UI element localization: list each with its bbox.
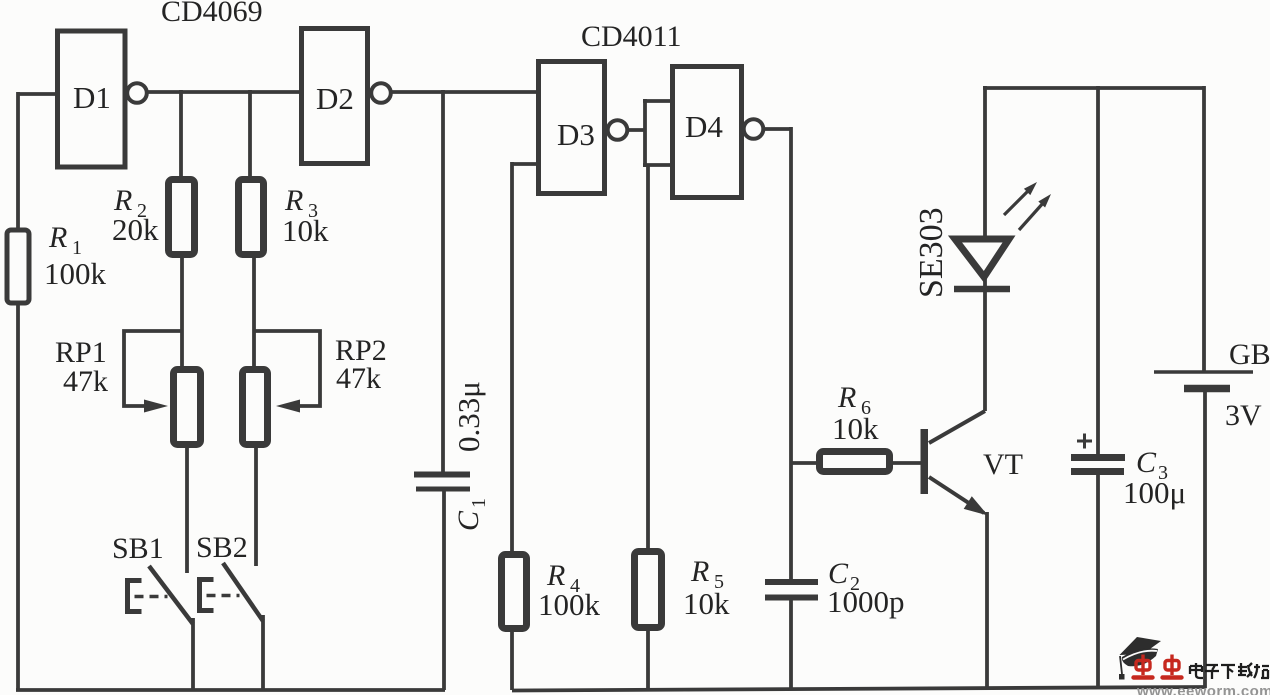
svg-text:www.eeworm.com: www.eeworm.com	[1136, 683, 1270, 695]
svg-text:100k: 100k	[538, 587, 601, 622]
svg-text:R: R	[48, 221, 67, 254]
svg-text:1000p: 1000p	[827, 584, 905, 619]
svg-text:CD4011: CD4011	[581, 20, 682, 53]
svg-text:0.33μ: 0.33μ	[451, 381, 486, 452]
svg-text:3V: 3V	[1225, 399, 1262, 432]
svg-text:SB1: SB1	[112, 532, 164, 565]
svg-text:100μ: 100μ	[1123, 475, 1186, 510]
svg-text:D2: D2	[316, 81, 354, 116]
svg-text:R: R	[837, 381, 856, 414]
svg-text:47k: 47k	[336, 362, 381, 395]
svg-text:47k: 47k	[63, 365, 108, 398]
svg-text:SB2: SB2	[196, 531, 248, 564]
svg-text:SE303: SE303	[913, 207, 950, 298]
svg-text:10k: 10k	[683, 586, 730, 621]
svg-text:1: 1	[468, 498, 490, 508]
svg-text:CD4069: CD4069	[161, 0, 263, 28]
svg-text:D3: D3	[557, 117, 595, 152]
svg-text:10k: 10k	[282, 213, 329, 248]
svg-text:100k: 100k	[44, 256, 107, 291]
svg-text:VT: VT	[983, 448, 1023, 481]
svg-text:10k: 10k	[832, 411, 879, 446]
svg-text:D4: D4	[685, 109, 723, 144]
svg-text:C: C	[452, 510, 485, 531]
svg-text:D1: D1	[73, 80, 111, 115]
svg-text:R: R	[690, 555, 709, 588]
svg-text:GB: GB	[1229, 338, 1270, 371]
svg-text:20k: 20k	[112, 212, 159, 247]
